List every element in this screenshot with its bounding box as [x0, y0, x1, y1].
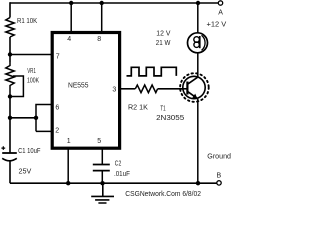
node junction C2 bottom: [100, 181, 104, 185]
svg-text:2N3055: 2N3055: [156, 113, 184, 122]
svg-text:A: A: [218, 9, 223, 16]
svg-text:3: 3: [112, 87, 116, 94]
wire rail R1 to pin7 node: [9, 37, 11, 62]
svg-text:1: 1: [67, 138, 71, 145]
node junction lamp top: [196, 1, 200, 5]
wire rail VR1 to C1: [9, 97, 11, 153]
capacitor C1 plus sign: [1, 146, 5, 150]
wire pin 1 stub: [67, 149, 69, 183]
wire top to lamp: [197, 3, 199, 33]
ground: [91, 183, 114, 203]
svg-text:25V: 25V: [19, 166, 32, 175]
svg-text:Ground: Ground: [207, 151, 231, 160]
node junction pin4 top: [69, 1, 73, 5]
wire C1 to bottom rail: [9, 161, 11, 183]
svg-text:VR1: VR1: [27, 66, 36, 75]
capacitor C1: [2, 152, 17, 154]
svg-text:+12 V: +12 V: [207, 20, 227, 29]
terminal A: [218, 1, 222, 5]
node junction emitter bottom: [196, 181, 200, 185]
svg-text:6: 6: [55, 104, 59, 111]
wire left rail upper: [9, 2, 11, 17]
node junction VR1 bottom: [8, 94, 12, 98]
node junction pin7: [8, 52, 12, 56]
wire pin 4 stub: [70, 3, 72, 33]
squarewave icon: [127, 67, 177, 76]
wire R2 to base: [158, 88, 188, 90]
svg-text:NE555: NE555: [68, 81, 89, 90]
capacitor C2: [93, 164, 110, 166]
wire lamp to transistor: [197, 53, 199, 78]
svg-text:CSGNetwork.Com 6/8/02: CSGNetwork.Com 6/8/02: [125, 189, 201, 198]
node junction rail to pins 6-2: [8, 116, 12, 120]
svg-text:2: 2: [55, 127, 59, 134]
svg-text:21 W: 21 W: [156, 38, 171, 47]
svg-text:T1: T1: [160, 104, 165, 113]
svg-text:C1 10uF: C1 10uF: [18, 146, 41, 155]
wire pin 8 stub: [101, 3, 103, 33]
svg-text:B: B: [217, 173, 222, 180]
wire emitter to bottom rail: [197, 99, 199, 184]
svg-text:R1 10K: R1 10K: [17, 16, 37, 25]
svg-text:100K: 100K: [27, 75, 39, 84]
wire bottom rail: [10, 182, 217, 184]
resistor R2: [135, 85, 157, 93]
svg-text:12 V: 12 V: [156, 29, 170, 38]
wire pins 6 and 2 connector: [36, 105, 52, 132]
node junction pin1 bottom: [66, 181, 70, 185]
wire pin 7: [10, 54, 52, 56]
wire pin 3: [120, 88, 135, 90]
node junction 6-2 connector: [34, 116, 38, 120]
wire top rail: [10, 2, 219, 4]
svg-text:7: 7: [56, 53, 60, 60]
svg-text:5: 5: [97, 138, 101, 145]
node junction pin8 top: [100, 1, 104, 5]
transistor Q1: [183, 76, 205, 98]
op-amp U1 NE555 body: [52, 33, 119, 149]
VR1 wiper link: [10, 76, 23, 97]
svg-text:.01uF: .01uF: [114, 169, 130, 178]
potentiometer VR1: [6, 62, 14, 97]
svg-text:R2 1K: R2 1K: [128, 103, 148, 112]
svg-text:C2: C2: [115, 159, 122, 168]
lamp DS1: [188, 33, 208, 53]
terminal B: [217, 181, 221, 185]
transistor Q1 dashed circle: [180, 73, 209, 102]
wire C2 to bottom rail: [101, 171, 103, 184]
wire pin 5 stub: [101, 149, 103, 164]
svg-text:4: 4: [67, 36, 71, 43]
svg-text:8: 8: [97, 36, 101, 43]
wire rail to 6-2 connector: [10, 117, 36, 119]
resistor R1: [6, 18, 14, 38]
